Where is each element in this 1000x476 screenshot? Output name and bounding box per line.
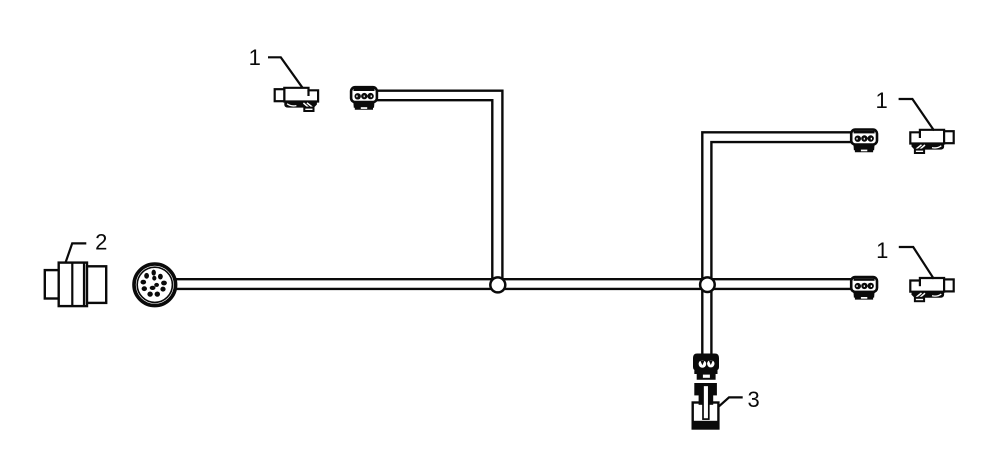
item 3 connector: central slot <box>703 385 709 419</box>
3-pin connector top-right (wire enters left) <box>851 130 877 153</box>
svg-text:3: 3 <box>747 387 759 412</box>
item 1 connector top-right <box>910 130 953 153</box>
svg-text:2: 2 <box>95 230 107 255</box>
label 1 top-left leader <box>268 57 303 88</box>
wire main top line <box>175 278 852 280</box>
main cable from round connector to right connector <box>175 91 852 356</box>
2-pin connector on lower branch: body <box>693 354 719 380</box>
label 2 leader <box>66 243 87 262</box>
junction node at second branch <box>700 277 715 292</box>
wire branch up-left inner <box>376 100 492 281</box>
round connector P2: outer ring <box>134 264 176 306</box>
item 3 connector: bottom band <box>693 421 719 429</box>
svg-text:1: 1 <box>875 88 887 113</box>
label 1 top-right leader <box>899 99 934 131</box>
3-pin connector mid-right on main cable <box>851 277 877 300</box>
item 3 connector: flanks <box>699 395 703 405</box>
wire branch top-right outer <box>702 132 852 281</box>
3-pin connector top-left (wire exits right) <box>351 87 377 110</box>
item 3 connector: top block <box>694 383 717 395</box>
label 1 mid-right leader <box>899 247 934 279</box>
connector 2 side view: right body <box>87 266 106 303</box>
item 1 connector top-left (mirrored) <box>275 88 318 111</box>
wire main bottom line <box>175 288 852 290</box>
connector 2 side view: divider lines <box>71 263 73 307</box>
item 3 connector: outer box <box>693 403 719 429</box>
label 3 leader <box>719 397 743 406</box>
connector 2 side view: left cap <box>45 270 59 298</box>
svg-text:1: 1 <box>876 238 888 263</box>
wire branch top-right inner <box>711 142 852 281</box>
round connector P2: pins <box>141 270 167 297</box>
wire branch down to 2-pin connector <box>702 288 711 356</box>
wire branch up-left outer <box>376 91 502 281</box>
connector 2 side view: main band <box>59 263 87 307</box>
item 1 connector mid-right <box>910 278 953 301</box>
round connector P2: inner ring <box>137 267 172 302</box>
junction node at first branch <box>490 277 505 292</box>
svg-text:1: 1 <box>249 45 261 70</box>
